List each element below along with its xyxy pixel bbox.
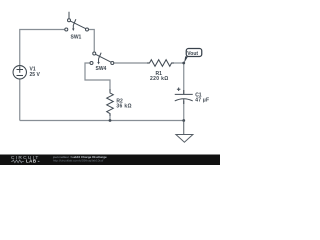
wire C1 bottom to bottom rail	[183, 101, 185, 121]
svg-text:http://circuitlab.com/c/59fbuq: http://circuitlab.com/c/59fbuq/lab10cd/	[53, 159, 104, 163]
svg-text:25 V: 25 V	[30, 72, 41, 78]
switch SW4	[90, 52, 114, 65]
resistor R1	[147, 60, 174, 67]
resistor R2	[107, 89, 114, 116]
wire top-left from V1 to SW1	[20, 30, 65, 66]
wire SW4 right to R1	[114, 62, 150, 64]
capacitor C1	[175, 88, 193, 104]
svg-text:220 kΩ: 220 kΩ	[150, 76, 169, 82]
voltage source V1	[13, 66, 26, 79]
svg-text:SW4: SW4	[96, 66, 107, 72]
wire Vout node down to C1	[183, 63, 185, 94]
junction dot at Vout node	[182, 62, 185, 65]
ground	[176, 121, 193, 143]
junction dot ground node	[182, 119, 185, 122]
wire bottom rail	[20, 120, 184, 122]
wire SW4 left to R2 top	[85, 63, 110, 92]
svg-text:Vout: Vout	[187, 51, 198, 57]
switch SW1	[65, 12, 89, 31]
footer CircuitLab logo	[11, 155, 40, 164]
svg-text:36 kΩ: 36 kΩ	[116, 103, 131, 109]
node Vout flag	[184, 49, 202, 64]
svg-text:47 µF: 47 µF	[195, 97, 209, 103]
wire R1 to Vout node	[172, 62, 184, 64]
footer bar	[0, 155, 220, 166]
wire R2 bottom to bottom rail	[109, 114, 111, 121]
wire V1 bottom to bottom rail	[19, 79, 21, 121]
svg-text:LAB: LAB	[26, 159, 37, 164]
wire SW1 right to SW4 top	[89, 30, 95, 53]
svg-text:SW1: SW1	[71, 35, 82, 41]
junction dot R2-bottom rail	[109, 119, 112, 122]
footer attribution text	[52, 155, 107, 162]
